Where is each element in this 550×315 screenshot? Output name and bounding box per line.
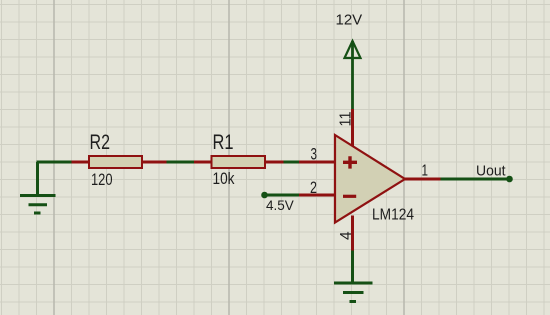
- resistor R1 pins: [194, 161, 284, 164]
- opamp pin 4 lead (V-): [351, 216, 354, 251]
- svg-text:12V: 12V: [336, 12, 363, 29]
- wire R1 to opamp pin 3: [284, 161, 300, 164]
- minus symbol: [343, 195, 356, 198]
- node Uout dot: [506, 176, 513, 183]
- opamp pin 1 lead (output): [404, 178, 441, 181]
- wire 4.5V to opamp pin 2: [265, 194, 300, 197]
- resistor R2: [89, 156, 142, 168]
- svg-text:3: 3: [311, 145, 318, 164]
- opamp pin 2 lead: [299, 194, 335, 197]
- svg-text:R2: R2: [90, 131, 111, 154]
- power terminal 12V arrow: [345, 41, 361, 109]
- wire pin1 to Uout: [441, 178, 510, 181]
- svg-text:1: 1: [422, 163, 429, 180]
- node 4.5V dot: [261, 192, 268, 199]
- svg-text:2: 2: [310, 178, 317, 197]
- plus symbol: [343, 156, 357, 168]
- resistor R1: [212, 156, 266, 168]
- svg-text:LM124: LM124: [372, 207, 414, 224]
- opamp pin 11 lead (V+): [351, 109, 354, 147]
- wire R2 to R1: [167, 161, 195, 164]
- svg-text:Uout: Uout: [476, 163, 506, 180]
- ground GND left: [20, 162, 56, 213]
- major grid lines: [54, 0, 404, 315]
- svg-text:4.5V: 4.5V: [266, 198, 294, 213]
- svg-text:4: 4: [338, 231, 355, 240]
- svg-text:R1: R1: [213, 131, 234, 154]
- resistor R2 pins: [72, 161, 167, 164]
- opamp pin 3 lead: [299, 161, 335, 164]
- ground GND bottom: [334, 283, 373, 302]
- svg-text:11: 11: [338, 111, 355, 126]
- svg-text:10k: 10k: [213, 170, 236, 188]
- wire ground to R2: [37, 161, 72, 164]
- svg-text:120: 120: [91, 171, 113, 189]
- wire pin4 to ground: [351, 251, 354, 284]
- op-amp U1 LM124 triangle: [335, 135, 405, 223]
